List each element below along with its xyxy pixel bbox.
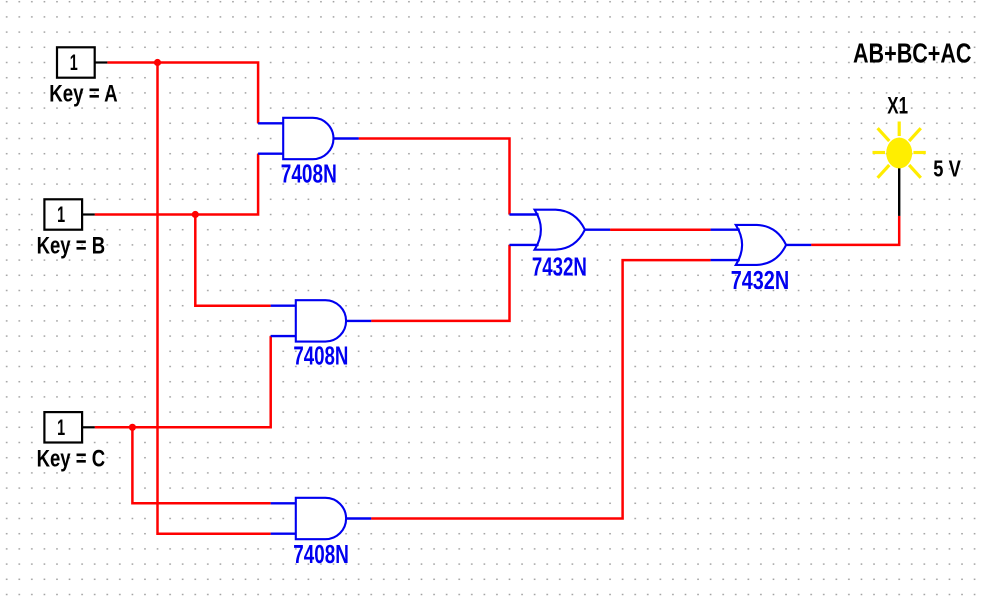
lamp X1 rays	[873, 122, 926, 178]
svg-text:1: 1	[57, 415, 65, 440]
junction node C	[129, 424, 136, 431]
wire net B: key B output to AND1 input B	[95, 154, 258, 215]
lamp X1 bulb	[886, 138, 912, 169]
OR gate U5 pin 3 output	[786, 244, 811, 246]
svg-text:7432N: 7432N	[731, 265, 790, 295]
OR gate U4 pin 2 input B	[510, 244, 539, 246]
junction node B	[192, 211, 199, 218]
svg-text:Key = B: Key = B	[37, 233, 106, 260]
svg-text:7408N: 7408N	[293, 341, 348, 371]
AND gate U3 pin 2 input B	[271, 533, 296, 535]
AND gate U2 pin 1 input A	[271, 305, 296, 307]
wire AND2 output to OR1 input B	[371, 245, 509, 321]
AND gate U2 pin 3 output	[346, 320, 371, 322]
lamp X1 pin wire	[898, 162, 900, 216]
AND gate U3 pin 1 input A	[271, 502, 296, 504]
wire net C: key C output to AND2 input B	[95, 336, 271, 427]
svg-text:5 V: 5 V	[933, 156, 961, 182]
wire net B branch: junction B down to AND2 input A	[195, 215, 270, 306]
switch J1 key A box	[57, 47, 107, 77]
svg-text:AB+BC+AC: AB+BC+AC	[853, 38, 972, 69]
wire net A: key A output to AND1 input A	[107, 63, 258, 124]
switch J2 key B box	[44, 199, 94, 229]
svg-text:1: 1	[70, 50, 78, 75]
AND gate U1 7408N body	[283, 118, 333, 159]
OR gate U5 7432N body	[736, 225, 786, 265]
svg-text:7408N: 7408N	[281, 159, 337, 189]
wire OR2 output to lamp X1	[811, 216, 899, 245]
OR gate U4 pin 3 output	[585, 228, 610, 230]
wire net C branch: junction C down to AND3 input A	[132, 427, 270, 503]
OR gate U4 pin 1 input A	[510, 213, 539, 215]
svg-text:7408N: 7408N	[293, 539, 349, 569]
AND gate U2 7408N body	[296, 300, 346, 341]
AND gate U1 pin 3 output	[334, 137, 359, 139]
wire net A branch: junction A down to AND3 input B	[158, 63, 271, 534]
svg-text:7432N: 7432N	[532, 252, 587, 282]
AND gate U1 pin 2 input B	[258, 152, 283, 154]
OR gate U5 pin 1 input A	[711, 228, 740, 230]
wire AND1 output to OR1 input A	[359, 139, 510, 215]
OR gate U4 7432N body	[535, 210, 585, 250]
svg-text:X1: X1	[887, 92, 908, 119]
AND gate U3 7408N body	[296, 498, 346, 539]
AND gate U1 pin 1 input A	[258, 122, 283, 124]
svg-text:Key = C: Key = C	[37, 445, 106, 472]
AND gate U3 pin 3 output	[346, 517, 371, 519]
svg-text:1: 1	[57, 202, 65, 227]
OR gate U5 pin 2 input B	[711, 259, 740, 261]
junction node A	[154, 59, 161, 66]
wire AND3 output to OR2 input B	[371, 260, 710, 518]
svg-text:Key = A: Key = A	[49, 81, 118, 108]
switch J3 key C box	[44, 412, 94, 442]
wire OR1 output to OR2 input A	[610, 228, 711, 231]
AND gate U2 pin 2 input B	[271, 335, 296, 337]
